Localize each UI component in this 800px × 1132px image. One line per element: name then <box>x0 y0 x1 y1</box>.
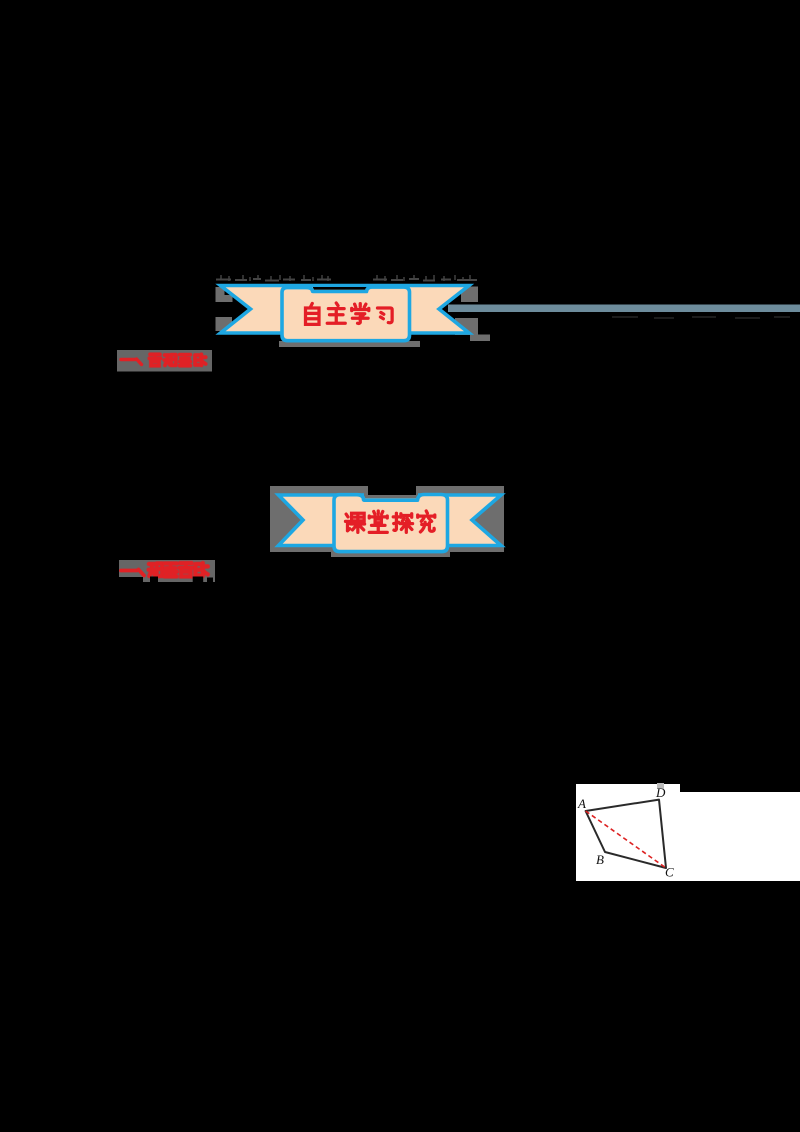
svg-text:A: A <box>577 796 586 811</box>
red text 自主学习 <box>306 303 393 324</box>
ribbon wings <box>221 286 470 334</box>
diagram white background right strip <box>680 792 800 881</box>
quadrilateral ABCD <box>586 800 666 868</box>
header 2 grey highlight <box>119 560 215 582</box>
grey strip under centre panel <box>331 552 450 557</box>
centre panel with raised corner tabs <box>334 495 448 552</box>
red text 课堂探究 <box>345 511 434 532</box>
faint residue below bar <box>612 317 790 318</box>
grey residue block left tip top <box>216 287 233 302</box>
grey residue block left tip bottom <box>216 317 233 331</box>
grey cover over wing line at recess <box>364 491 418 498</box>
grey residue right of bottom corner <box>470 335 490 342</box>
svg-text:C: C <box>665 865 674 880</box>
slate-grey horizontal bar <box>448 305 800 313</box>
header 1 red text 一、XXXX <box>121 354 206 365</box>
header 1 grey highlight <box>117 350 212 372</box>
red dashed diagonal A-C <box>586 811 666 868</box>
grey residue block right tip top <box>461 287 478 303</box>
centre panel with raised corner tabs <box>282 287 410 341</box>
small grey square above D <box>657 783 664 789</box>
diagram white background left box <box>576 784 680 881</box>
ribbon wings <box>279 495 502 546</box>
faint text residue line above banner 1, right run <box>373 275 477 281</box>
black notch in grey top centre <box>368 486 416 495</box>
faint text residue line above banner 1, left run <box>216 275 331 281</box>
svg-text:D: D <box>655 785 666 800</box>
header 2 black trim under 一、 <box>119 577 143 583</box>
svg-text:B: B <box>596 852 604 867</box>
vertex labels <box>577 785 674 880</box>
grey strip under centre panel <box>279 341 420 347</box>
header 2 black knockout marks <box>150 577 158 583</box>
grey highlight rectangle <box>270 486 504 552</box>
header 2 red text 一、XXXX <box>121 563 208 576</box>
banner 2 课堂探究 group <box>270 486 504 557</box>
black gap over recess <box>313 287 367 290</box>
banner 1 自主学习 group <box>216 286 491 348</box>
grey residue block right tip bottom <box>455 318 478 335</box>
